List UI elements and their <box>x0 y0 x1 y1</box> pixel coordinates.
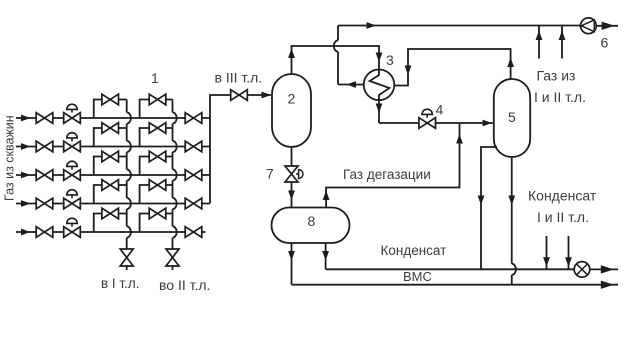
svg-text:Конденсат: Конденсат <box>381 243 447 258</box>
arrow inlet line 3 <box>21 172 31 179</box>
svg-text:Конденсат: Конденсат <box>528 188 597 204</box>
wire condensate header <box>326 268 618 270</box>
vessel: separator 2 <box>272 74 311 147</box>
arrow into flash drum 8 <box>288 191 295 201</box>
valve outlet, line 1 <box>185 113 202 124</box>
svg-text:8: 8 <box>308 213 316 229</box>
arrow inlet line 5 <box>21 229 31 236</box>
valve inlet control with actuator, line 3 <box>64 170 81 181</box>
wire loop to collector I, line 1 <box>94 100 127 119</box>
heat-exchanger 3 <box>364 70 395 101</box>
arrow inlet line 4 <box>21 200 31 207</box>
wire feed to separator 5 <box>379 122 493 124</box>
valve inlet gate, line 1 <box>36 113 53 124</box>
svg-text:в I т.л.: в I т.л. <box>101 276 140 291</box>
svg-text:5: 5 <box>508 109 516 125</box>
wire well line 1 <box>16 117 210 119</box>
wire export gas line <box>338 25 618 27</box>
svg-text:I и II т.л.: I и II т.л. <box>534 89 586 105</box>
wire loop to collector II, line 4 <box>140 185 173 204</box>
wire gas inlet from flow line II <box>561 26 563 59</box>
wire loop to collector I, line 2 <box>94 128 127 147</box>
valve outlet, line 3 <box>185 170 202 181</box>
svg-text:Газ из: Газ из <box>537 68 576 84</box>
wire gas inlet from flow line I <box>538 26 540 59</box>
arrow down from heat exchanger <box>376 104 383 114</box>
valve to collector I, line 4 <box>102 180 119 191</box>
valve to collector II, line 1 <box>149 94 166 105</box>
svg-text:в III т.л.: в III т.л. <box>215 70 263 86</box>
arrow condensate from flash drum <box>322 251 329 261</box>
wire well line 2 <box>16 146 210 148</box>
svg-text:во II т.л.: во II т.л. <box>159 277 210 293</box>
arrow up from separator 5 <box>507 58 514 68</box>
valve outlet, line 5 <box>185 227 202 238</box>
valve outlet, line 2 <box>185 141 202 152</box>
wire condensate inlet from flow line I <box>546 236 548 269</box>
svg-text:4: 4 <box>436 102 444 118</box>
vessel: flash drum 8 <box>272 208 350 244</box>
arrow into separator 5 <box>483 120 493 127</box>
arrow export line <box>367 22 377 29</box>
arrow gas inlet II <box>559 31 566 41</box>
valve 7 with actuator <box>285 166 298 182</box>
mixer (circle-cross) on condensate outlet <box>574 262 590 278</box>
valve on line to separator 2 <box>231 90 248 101</box>
wire separator 5 gas to heat exchanger <box>394 49 510 86</box>
valve to collector II, line 5 <box>149 208 166 219</box>
ejector 6 <box>581 18 597 34</box>
wire loop to collector II, line 1 <box>140 100 173 119</box>
valve inlet gate, line 4 <box>36 198 53 209</box>
wire separator 5 water out (hops over condensate line) <box>512 157 516 285</box>
wire loop to collector II, line 5 <box>140 214 173 233</box>
arrow out of heat exchanger <box>347 81 357 88</box>
wire loop to collector II, line 2 <box>140 128 173 147</box>
svg-text:2: 2 <box>288 91 296 107</box>
wire well line 3 <box>16 174 210 176</box>
wire degassing gas <box>326 123 459 208</box>
wire collector I (vertical with hops) <box>127 100 131 271</box>
valve 4 control with actuator <box>419 118 436 129</box>
svg-text:ВМС: ВМС <box>403 269 432 284</box>
valve inlet gate, line 2 <box>36 141 53 152</box>
wire into flash drum 8 <box>291 182 293 208</box>
wire heat exchanger bottom out <box>378 100 380 123</box>
wire loop to collector II, line 3 <box>140 157 173 176</box>
arrow VMS outlet <box>601 281 614 289</box>
wire flash drum water out <box>291 243 293 285</box>
wire collector II (vertical with hops) <box>173 100 177 271</box>
valve collector II outlet <box>166 249 179 266</box>
valve inlet control with actuator, line 5 <box>64 227 81 238</box>
valve to collector I, line 5 <box>102 208 119 219</box>
valve inlet gate, line 5 <box>36 227 53 238</box>
valve collector I outlet <box>120 249 133 266</box>
wire loop to collector I, line 4 <box>94 185 127 204</box>
wire separator 5 condensate out <box>481 147 497 269</box>
arrow down into heat exchanger top <box>376 53 383 63</box>
valve to collector II, line 2 <box>149 123 166 134</box>
wire header to III flow line <box>210 95 271 204</box>
arrow water from flash drum <box>288 251 295 261</box>
svg-text:Газ из скважин: Газ из скважин <box>3 115 17 201</box>
arrow water from separator 5 <box>508 196 515 206</box>
arrow export outlet <box>602 22 615 30</box>
svg-text:6: 6 <box>601 35 609 51</box>
arrow up from separator 2 <box>288 49 295 59</box>
arrow inlet line 1 <box>21 115 31 122</box>
vessel: separator 5 <box>494 79 530 157</box>
wire VMS header <box>292 284 619 286</box>
wire well line 5 <box>16 231 206 233</box>
wire well line 4 <box>16 203 210 205</box>
wire riser to export line (hops over line) <box>334 26 338 85</box>
wire condensate inlet from flow line II <box>568 236 570 269</box>
valve to collector II, line 4 <box>149 180 166 191</box>
svg-text:7: 7 <box>266 166 274 182</box>
wire heat exchanger out to riser <box>338 84 364 86</box>
arrow condensate inlet II <box>565 257 572 267</box>
wire loop to collector I, line 5 <box>94 214 127 233</box>
valve to collector I, line 1 <box>102 94 119 105</box>
arrow condensate outlet <box>601 265 614 273</box>
valve to collector I, line 2 <box>102 123 119 134</box>
wire separator 2 gas up <box>292 46 380 74</box>
svg-text:1: 1 <box>151 70 159 86</box>
arrow inlet line 2 <box>21 143 31 150</box>
arrow degassing up from flash drum 8 <box>323 191 330 201</box>
arrow condensate from separator 5 <box>478 196 485 206</box>
wire loop to collector I, line 3 <box>94 157 127 176</box>
arrow condensate inlet I <box>543 257 550 267</box>
arrow degassing joins feed <box>456 134 463 144</box>
valve inlet control with actuator, line 4 <box>64 198 81 209</box>
svg-text:Газ дегазации: Газ дегазации <box>343 167 431 182</box>
svg-text:3: 3 <box>386 52 394 68</box>
arrow gas inlet I <box>536 31 543 41</box>
valve inlet gate, line 3 <box>36 170 53 181</box>
valve outlet, line 4 <box>185 198 202 209</box>
wire separator 2 bottom out <box>291 147 293 166</box>
valve to collector II, line 3 <box>149 151 166 162</box>
arrow into separator 2 <box>262 92 272 99</box>
arrow down to heat exchanger right <box>405 66 412 76</box>
svg-text:I и II т.л.: I и II т.л. <box>537 209 589 225</box>
valve inlet control with actuator, line 1 <box>64 113 81 124</box>
valve to collector I, line 3 <box>102 151 119 162</box>
valve inlet control with actuator, line 2 <box>64 141 81 152</box>
wire flash drum condensate out <box>325 243 327 269</box>
